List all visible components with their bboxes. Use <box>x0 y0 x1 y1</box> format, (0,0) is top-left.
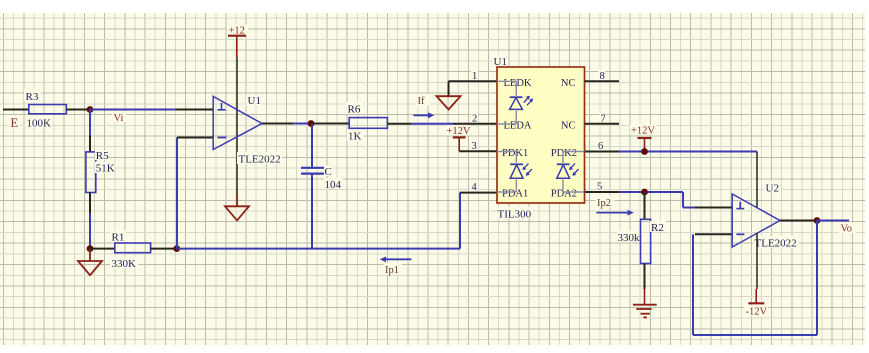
op-amp U2 <box>732 181 799 250</box>
wire pin5 net <box>619 192 695 208</box>
wire pin4 stub <box>460 192 497 194</box>
svg-text:4: 4 <box>472 182 478 193</box>
current label Ip1 <box>380 256 412 276</box>
earth ground symbol R2 <box>633 289 657 317</box>
node R1 right junction <box>173 245 180 252</box>
svg-text:Ip1: Ip1 <box>385 265 399 276</box>
svg-text:U1: U1 <box>248 95 261 107</box>
svg-text:51K: 51K <box>96 163 115 175</box>
node Vo <box>839 223 856 234</box>
node U1 output junction <box>308 120 315 127</box>
svg-text:NC: NC <box>561 120 576 131</box>
svg-text:7: 7 <box>601 113 606 124</box>
node E <box>8 115 20 128</box>
pin U1 non-inverting input <box>176 109 213 111</box>
wire R3 to node Vi <box>66 109 90 111</box>
resistor R6 <box>346 102 387 143</box>
svg-text:If: If <box>418 96 425 107</box>
power +12V symbol pin3 <box>446 126 471 152</box>
wire R1 to right junction <box>151 248 177 250</box>
internal gray links left <box>497 81 516 192</box>
svg-text:R3: R3 <box>26 91 39 103</box>
pin U2 non-inverting input <box>695 207 732 209</box>
ground symbol below U1 <box>225 193 249 220</box>
resistor R5 <box>86 150 115 193</box>
svg-text:NC: NC <box>561 78 576 89</box>
pin number 4 <box>471 181 478 191</box>
pin 7 stub <box>585 123 620 125</box>
pin U1 inverting input <box>177 137 213 139</box>
svg-text:PDK2: PDK2 <box>551 148 577 159</box>
current label Ip2 <box>596 196 634 216</box>
pin number 1 <box>471 70 478 80</box>
svg-text:R5: R5 <box>96 150 109 162</box>
pin number 5 <box>596 181 603 191</box>
wire node down to capacitor <box>311 124 313 168</box>
svg-text:1: 1 <box>472 71 477 82</box>
pin number 8 <box>599 70 606 80</box>
pin number 6 <box>597 140 604 150</box>
pin 8 stub <box>585 80 620 82</box>
svg-text:5: 5 <box>597 182 602 193</box>
svg-text:Vi: Vi <box>114 113 124 124</box>
svg-text:TLE2022: TLE2022 <box>755 238 797 250</box>
svg-text:3: 3 <box>472 141 477 152</box>
node U2 output junction <box>814 217 821 224</box>
wire Vi down to R5 <box>89 110 91 153</box>
svg-text:+12V: +12V <box>631 126 655 137</box>
LED symbol <box>510 96 533 110</box>
pin number 2 <box>471 113 478 123</box>
pin 6 stub <box>585 151 620 153</box>
svg-text:LEDK: LEDK <box>504 78 532 89</box>
wire output to Vo <box>817 220 849 222</box>
pin 5 stub <box>585 191 620 193</box>
svg-text:U2: U2 <box>766 183 779 195</box>
svg-text:-12V: -12V <box>746 307 768 318</box>
svg-text:Vo: Vo <box>841 223 852 234</box>
wire U2 positive supply <box>756 152 758 209</box>
wire feedback vertical to U1 inverting input <box>176 138 178 249</box>
ground symbol pin1 <box>437 96 461 109</box>
wire feedback loop U2 <box>693 221 817 336</box>
pin U2 inverting input <box>695 233 732 235</box>
wire U1 power pins vertical <box>236 58 238 194</box>
pin U1 output <box>262 123 293 125</box>
svg-text:R1: R1 <box>112 232 125 244</box>
wire U1 output to node <box>293 123 311 125</box>
svg-text:6: 6 <box>598 141 603 152</box>
svg-text:Ip2: Ip2 <box>597 198 611 209</box>
internal gray links right <box>563 152 585 193</box>
svg-text:TIL300: TIL300 <box>498 209 532 221</box>
svg-text:+12V: +12V <box>447 126 471 137</box>
wire pin6 to U2 supply <box>619 151 757 153</box>
node pin5 junction <box>641 189 648 196</box>
svg-text:1K: 1K <box>348 131 362 143</box>
photodiode PD1 <box>510 163 532 178</box>
node Vi <box>87 106 126 124</box>
wire R2 bottom pin <box>644 264 646 290</box>
svg-text:TLE2022: TLE2022 <box>239 154 281 166</box>
svg-text:330K: 330K <box>112 258 137 270</box>
svg-text:LEDA: LEDA <box>504 120 532 131</box>
wire capacitor to bottom run <box>311 174 313 249</box>
power +12V symbol pin6 <box>630 125 656 152</box>
wire riser to pin4 <box>459 193 461 249</box>
pin number 7 <box>600 113 607 123</box>
svg-text:C: C <box>325 166 332 178</box>
wire pin2 stub <box>453 123 497 125</box>
svg-text:PDK1: PDK1 <box>502 148 528 159</box>
power +12 symbol <box>227 25 248 58</box>
resistor R3 <box>24 89 66 130</box>
pin U2 output <box>780 220 815 222</box>
svg-text:R6: R6 <box>348 104 361 116</box>
wire pin3 stub <box>459 150 497 152</box>
wire node to R1 <box>90 248 115 250</box>
svg-text:8: 8 <box>600 71 605 82</box>
wire U2 negative supply <box>756 233 758 289</box>
svg-text:104: 104 <box>325 179 342 191</box>
capacitor C <box>301 166 343 192</box>
svg-text:2: 2 <box>472 113 477 124</box>
wire pin1 to ground <box>449 81 498 96</box>
node +12V junction <box>641 148 648 155</box>
resistor R1 <box>110 231 151 271</box>
svg-text:U1: U1 <box>494 56 507 68</box>
wire R2 top pin <box>644 192 646 219</box>
resistor R2 <box>617 219 667 263</box>
svg-text:R2: R2 <box>651 222 664 234</box>
wire Vi to U1 <box>90 109 176 111</box>
op-amp U1 <box>213 95 282 166</box>
optocoupler U1 TIL300 body <box>492 54 585 221</box>
wire R6 to TIL300 pin2 <box>387 123 453 125</box>
node R1 left junction <box>87 245 94 252</box>
ground symbol left <box>78 249 102 276</box>
current label If <box>413 94 434 119</box>
power -12V symbol <box>744 289 768 318</box>
svg-text:100K: 100K <box>27 118 52 130</box>
wire R5 to bottom node <box>89 193 91 249</box>
svg-text:PDA1: PDA1 <box>502 189 528 200</box>
pin number 3 <box>471 140 478 150</box>
wire E input <box>3 109 29 111</box>
photodiode PD2 <box>557 163 579 178</box>
wire bottom run to pin4 riser <box>177 248 460 250</box>
svg-text:PDA2: PDA2 <box>551 189 577 200</box>
svg-text:330k: 330k <box>618 232 641 244</box>
svg-text:E: E <box>11 116 19 130</box>
wire node to R6 <box>311 123 349 125</box>
